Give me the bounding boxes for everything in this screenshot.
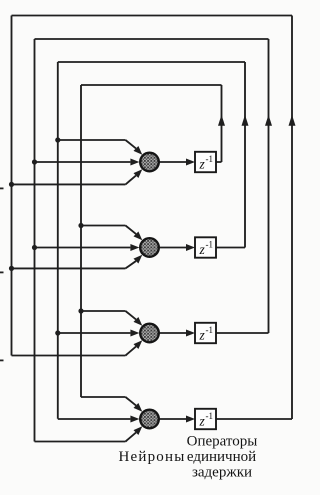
svg-text:-1: -1 <box>206 411 214 421</box>
svg-text:z: z <box>199 242 206 257</box>
svg-text:Нейроны: Нейроны <box>118 449 185 465</box>
svg-text:-1: -1 <box>206 239 214 249</box>
svg-text:Операторы: Операторы <box>187 434 258 450</box>
svg-text:z: z <box>199 328 206 343</box>
svg-text:-1: -1 <box>206 154 214 164</box>
svg-text:задержки: задержки <box>192 465 252 481</box>
svg-text:z: z <box>199 414 206 429</box>
svg-text:единичной: единичной <box>187 449 256 465</box>
svg-text:z: z <box>199 157 206 172</box>
svg-text:-1: -1 <box>206 325 214 335</box>
